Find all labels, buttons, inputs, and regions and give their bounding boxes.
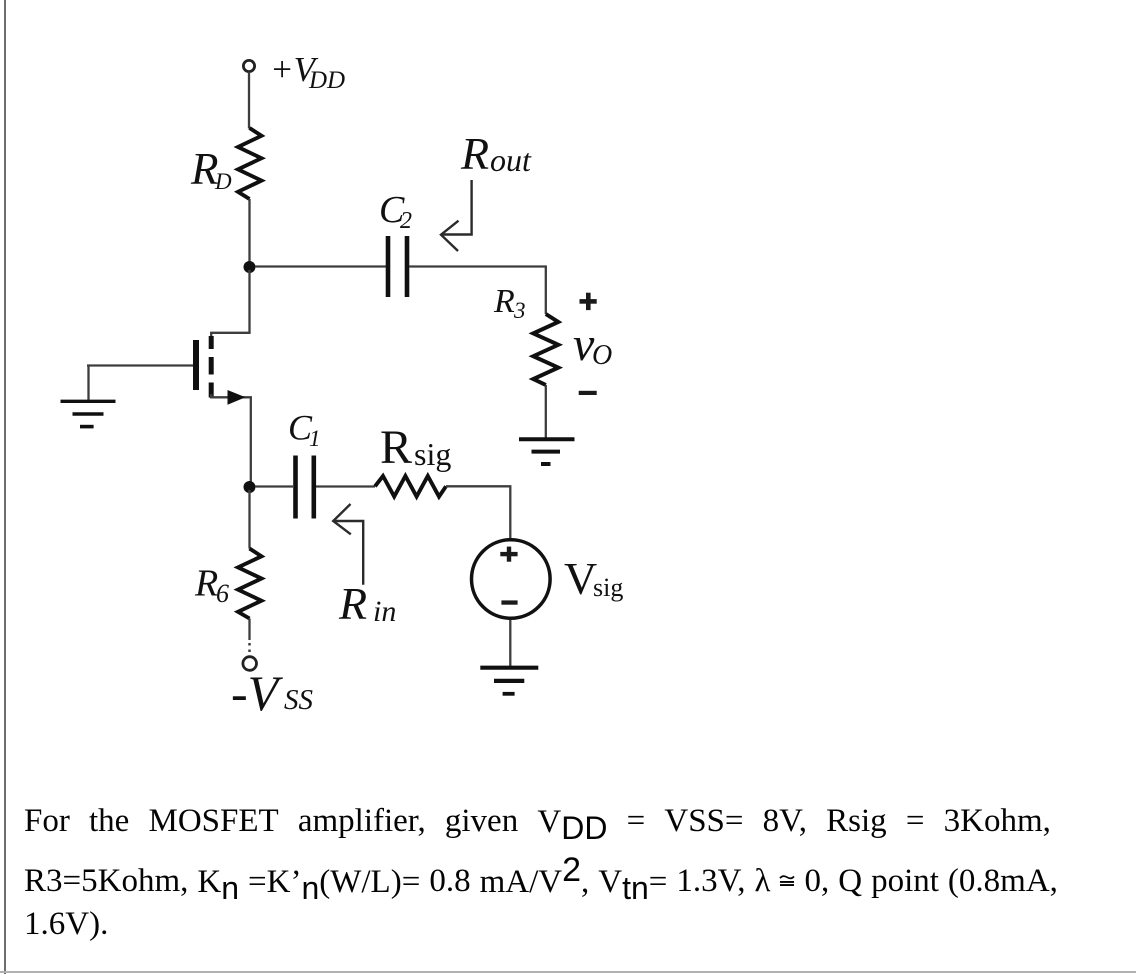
resistor R3 [533,314,558,385]
wire node to R6 [248,490,250,549]
capacitor C2 [388,236,407,297]
wire RD to drain node [248,199,250,267]
svg-text:DD: DD [308,67,345,94]
VDD terminal [243,60,254,71]
label Rin [338,578,396,629]
bottom page border [0,971,1136,973]
ground R3 [519,439,575,464]
wire VDD to RD [248,72,250,129]
svg-text:3: 3 [513,298,526,323]
mosfet gate bar [193,340,199,390]
resistor R6 [238,549,262,619]
wire Rsig to Vsig corner [446,486,510,538]
label R6 [194,563,229,609]
left page border [4,0,6,974]
svg-text:R: R [338,578,367,629]
wire R6 to VSS terminal [248,619,250,641]
label C1 [288,408,321,452]
VSS terminal [243,657,257,671]
label Rout [460,128,532,179]
capacitor C1 [296,456,314,519]
svg-text:sig: sig [593,573,623,602]
arrow Rin [333,504,363,585]
wire node to C2 [255,265,386,267]
wire drain to mosfet [211,270,249,337]
label Vsig [564,553,623,604]
minus sign vo [579,391,597,395]
label Rsig [380,421,451,474]
dotted wire stub [248,643,251,655]
node source junction [244,481,256,493]
node drain junction [244,261,256,273]
ground Vsig [480,668,538,694]
svg-text:2: 2 [400,208,412,234]
arrow Rout [441,180,472,251]
label vo [573,318,612,371]
svg-text:D: D [214,169,232,194]
wire C2 to R3 corner [409,267,546,315]
wire C1 to Rsig [316,485,375,487]
svg-text:6: 6 [216,579,229,608]
plus sign vo [580,293,597,310]
svg-text:R: R [380,421,412,474]
svg-text:1: 1 [309,426,321,451]
ground gate [61,401,116,426]
svg-text:sig: sig [414,436,451,472]
paragraph line 3 [24,905,108,943]
label -VSS [231,665,314,721]
gate ground drop wire [87,366,89,400]
source wire with corner down [211,394,251,487]
svg-text:R: R [493,283,515,320]
svg-text:out: out [490,142,532,178]
wire Vsig to ground [509,620,511,666]
label C2 [379,189,412,234]
mosfet channel dashes [209,336,214,398]
minus sign Vsig [501,600,517,604]
svg-text:SS: SS [284,684,314,716]
svg-text:in: in [373,595,396,628]
svg-text:O: O [592,340,612,371]
label +VDD [270,50,345,94]
paragraph line 1 [24,802,1051,841]
source arrowhead [228,390,246,405]
wire node to C1 [255,485,293,487]
source Vsig circle [472,540,551,619]
paragraph line 2 [24,862,1051,901]
resistor Rsig [375,476,446,497]
wire R3 to ground [545,385,547,438]
label RD [190,144,232,194]
label R3 [493,283,526,323]
svg-text:R: R [194,563,218,605]
plus sign Vsig [500,547,517,562]
svg-text:-V: -V [231,665,284,721]
gate wire [87,364,193,366]
svg-text:R: R [460,128,489,179]
resistor RD [238,128,262,199]
